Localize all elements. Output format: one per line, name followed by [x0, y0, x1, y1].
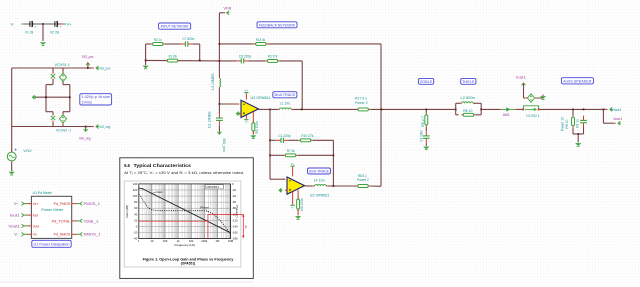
svg-text:V2 28: V2 28: [50, 31, 59, 35]
pin: [87, 63, 89, 65]
wire: [332, 140, 334, 186]
wire: [328, 185, 358, 187]
pin V+: [61, 23, 64, 25]
pin: [223, 12, 225, 14]
label pin: [22, 213, 24, 217]
wire to inverting input: [219, 103, 238, 105]
label pin: [80, 219, 82, 223]
wire VG2 feed: [35, 96, 70, 98]
svg-text:76°: 76°: [244, 225, 248, 229]
pin Pd_NMOS: [72, 233, 77, 235]
svg-text:VCVS1 1: VCVS1 1: [55, 63, 70, 67]
wire: [52, 112, 54, 116]
svg-text:SIG_pos: SIG_pos: [222, 138, 226, 152]
annotation 5mA TRACE 2: [308, 168, 331, 174]
ground: [9, 172, 15, 175]
svg-text:R5 2.7: R5 2.7: [421, 116, 425, 127]
resistor R6: [461, 113, 475, 116]
V+ jumper U3: [244, 88, 248, 99]
source VG2: [7, 149, 16, 163]
svg-text:1M: 1M: [215, 239, 220, 243]
pin: [283, 178, 285, 180]
resistor R18: [254, 42, 268, 45]
svg-text:Vs+: Vs+: [33, 202, 39, 206]
wire: [63, 84, 70, 86]
svg-text:L2 500n: L2 500n: [461, 96, 475, 100]
ammeter AM1: [500, 107, 517, 111]
svg-text:5mA TRACE: 5mA TRACE: [309, 169, 330, 173]
pin: [62, 123, 64, 125]
annotation THELE: [461, 78, 476, 84]
wire: [270, 139, 276, 141]
svg-text:V+: V+: [245, 88, 249, 92]
label pin: [96, 66, 99, 70]
junction SIG_neg: [85, 126, 87, 128]
resistor R8: [356, 185, 370, 188]
svg-text:VG2: VG2: [23, 149, 31, 153]
svg-text:Typical Characteristics: Typical Characteristics: [134, 163, 192, 168]
pin: [240, 113, 242, 115]
svg-text:NMOS_1: NMOS_1: [84, 233, 101, 237]
CCVS2 sense: [522, 106, 540, 111]
wire: [476, 114, 482, 116]
svg-text:SIG_pos: SIG_pos: [99, 67, 110, 71]
wire to ground: [42, 24, 44, 41]
V- jumper U2: [291, 192, 295, 210]
junction supply mid: [42, 23, 44, 25]
svg-text:-160: -160: [232, 231, 238, 235]
pin: [85, 129, 87, 131]
red marker vertical: [207, 214, 209, 238]
svg-text:SIG_neg: SIG_neg: [99, 125, 110, 129]
svg-text:Phase (°): Phase (°): [235, 205, 239, 218]
svg-text:Vout1: Vout1: [613, 117, 622, 121]
wire: [480, 103, 482, 115]
svg-text:OPA551: OPA551: [206, 185, 219, 189]
svg-text:R10 27k: R10 27k: [301, 134, 313, 138]
junction: [333, 185, 335, 187]
junction: [572, 109, 574, 111]
pin V-: [22, 23, 25, 25]
svg-text:U3 OPA551: U3 OPA551: [251, 96, 271, 100]
wire: [297, 209, 299, 215]
wire: [313, 139, 334, 141]
wire: [62, 125, 64, 127]
annotation FEEDBACK NETWORK: [257, 22, 297, 28]
gain label: [151, 190, 164, 194]
svg-text:SIG_neg: SIG_neg: [79, 137, 91, 141]
pin Iout: [27, 214, 32, 216]
svg-text:L4 10n: L4 10n: [314, 179, 325, 183]
annotation U1: [32, 240, 71, 247]
label pin: [84, 128, 88, 131]
wire: [26, 23, 44, 25]
wire: [199, 44, 201, 60]
battery V1: [28, 21, 37, 29]
label pin: [227, 11, 230, 15]
wire: [219, 12, 223, 14]
pin Vs+: [27, 203, 32, 205]
wire: [193, 43, 200, 45]
svg-text:V+: V+: [67, 23, 73, 27]
svg-text:ZOBLE: ZOBLE: [420, 80, 433, 84]
power meter U1 body: [31, 196, 71, 238]
label pin: [22, 202, 24, 206]
wire to U2 inverting input: [270, 178, 285, 180]
phase label: [200, 205, 209, 212]
svg-text:U1 Pd Meter: U1 Pd Meter: [33, 191, 53, 195]
inductor L1: [278, 108, 294, 109]
pin: [523, 83, 525, 85]
svg-text:100: 100: [133, 194, 138, 198]
svg-text:Power Meter: Power Meter: [41, 208, 64, 212]
junction: [145, 60, 147, 62]
VCVS2 input port: [51, 116, 55, 120]
resistor R10: [298, 139, 312, 142]
svg-text:-140: -140: [232, 224, 238, 228]
wire: [298, 154, 334, 156]
capacitor C6: [580, 116, 587, 128]
label pin: [96, 125, 99, 129]
resistor R2: [252, 121, 255, 133]
wire: [252, 131, 254, 135]
wire: [86, 126, 92, 128]
wire: [288, 139, 298, 141]
junction SIG_pos: [87, 67, 89, 69]
svg-text:C6 1n: C6 1n: [575, 119, 579, 128]
wire: [456, 102, 461, 104]
wire U3 output: [259, 108, 271, 110]
V+ jumper U2: [291, 162, 295, 176]
resistor R1: [165, 59, 179, 62]
pin: [52, 72, 54, 74]
wire: [88, 67, 92, 69]
pin Pd_PMOS: [72, 203, 77, 205]
svg-text:Frequency (Hz): Frequency (Hz): [174, 243, 195, 247]
pin: [218, 132, 220, 134]
ground: [142, 66, 148, 69]
svg-text:20: 20: [134, 218, 138, 222]
wire: [62, 82, 64, 85]
junction Thiele left: [455, 109, 457, 111]
capacitor C4: [423, 131, 430, 143]
svg-text:At Tⱼ = 25°C, Vₛ = ±30 V and R: At Tⱼ = 25°C, Vₛ = ±30 V and Rₗ = 3 kΩ, …: [124, 171, 244, 175]
svg-text:V-: V-: [291, 206, 294, 210]
wire main row: [573, 108, 603, 110]
junction U3 out: [269, 109, 271, 111]
wire: [540, 108, 573, 110]
svg-text:R18 4k: R18 4k: [256, 38, 265, 42]
capacitor C8: [237, 58, 249, 63]
label pin: [22, 233, 24, 237]
page margin: [0, 282, 253, 287]
wire: [572, 109, 574, 115]
wire main row: [370, 108, 426, 110]
svg-text:R3 27k: R3 27k: [268, 54, 278, 58]
wire: [481, 108, 500, 110]
svg-text:VCVS2 -1: VCVS2 -1: [56, 129, 71, 133]
svg-text:1.42Vp-p 1k sine: 1.42Vp-p 1k sine: [82, 95, 111, 99]
red phase-margin arrow: [242, 214, 248, 238]
wire to output: [301, 61, 303, 110]
svg-text:Pd_NMOS: Pd_NMOS: [54, 233, 72, 237]
svg-text:6.6: 6.6: [124, 163, 130, 168]
svg-text:Phase: Phase: [200, 205, 209, 209]
svg-text:C8 220p: C8 220p: [239, 54, 252, 58]
wire: [218, 104, 220, 114]
resistor R17: [356, 108, 370, 111]
junction: [219, 60, 221, 62]
svg-text:R7 4k: R7 4k: [287, 149, 295, 153]
wire to U2 input: [269, 109, 271, 179]
wire: [43, 23, 61, 25]
svg-text:140: 140: [133, 182, 138, 186]
op-amp U3: [241, 100, 259, 117]
wire: [146, 43, 151, 45]
VCVS1 input port: [51, 74, 55, 78]
label pin: [522, 83, 526, 86]
junction: [583, 109, 585, 111]
capacitor C7: [181, 41, 193, 46]
svg-text:-120: -120: [232, 218, 238, 222]
wire: [425, 109, 427, 113]
op-amp U2: [287, 177, 305, 194]
ground: [250, 135, 256, 138]
svg-text:Power 2: Power 2: [357, 178, 369, 182]
wire: [85, 127, 87, 130]
junction: [269, 154, 271, 156]
junction: [219, 43, 221, 45]
red marker horizontal 2: [139, 220, 208, 222]
wire: [52, 68, 54, 74]
wire: [252, 112, 254, 123]
svg-text:Gain (dB): Gain (dB): [125, 205, 129, 218]
ground (+ input): [236, 111, 239, 116]
CCVS2 source leads: [524, 97, 541, 99]
resistor R5: [425, 113, 428, 127]
svg-text:40: 40: [134, 212, 138, 216]
svg-text:R6 10: R6 10: [463, 109, 472, 113]
ground: [40, 42, 46, 45]
junction: [577, 133, 579, 135]
svg-text:R2 100k: R2 100k: [255, 121, 259, 134]
svg-text:Iout: Iout: [33, 214, 39, 218]
wire: [46, 111, 53, 113]
svg-text:VFB: VFB: [223, 6, 231, 10]
svg-text:L3 10MEG: L3 10MEG: [211, 73, 215, 90]
junction: [269, 139, 271, 141]
wire: [270, 154, 284, 156]
graph grid: [139, 184, 231, 239]
pin: [62, 71, 64, 73]
inductor L4: [313, 185, 329, 186]
wire: [474, 102, 481, 104]
wire: [145, 44, 147, 60]
svg-text:10: 10: [150, 239, 154, 243]
wire: [52, 79, 54, 85]
wire: [280, 60, 303, 62]
svg-text:C2 10MEG: C2 10MEG: [207, 111, 211, 128]
wire: [270, 108, 278, 110]
wire VCVS bottom: [12, 126, 86, 128]
svg-text:Gain: Gain: [156, 190, 163, 194]
wire main row: [293, 108, 358, 110]
wire: [219, 43, 253, 45]
resistor R3: [265, 59, 279, 62]
svg-text:L1 10n: L1 10n: [280, 102, 290, 106]
wire: [218, 88, 220, 104]
wire: [62, 112, 64, 115]
svg-text:4ohm SPEAKER: 4ohm SPEAKER: [563, 79, 591, 83]
svg-text:PMOS_1: PMOS_1: [84, 202, 101, 206]
svg-text:Pd_PMOS: Pd_PMOS: [54, 202, 72, 206]
junction Zobel: [425, 109, 427, 111]
wire main row: [426, 108, 455, 110]
wire: [602, 109, 604, 123]
annotation ZOBLE: [419, 78, 434, 84]
wire: [165, 43, 181, 45]
svg-text:U1 Power Dissipation: U1 Power Dissipation: [34, 242, 70, 246]
wire feedback top: [268, 43, 381, 45]
svg-text:Pd_TOTAL: Pd_TOTAL: [52, 219, 71, 223]
junction outputs join: [381, 109, 383, 111]
graph axis labels: [125, 182, 239, 247]
capacitor C2: [216, 113, 223, 125]
wire: [603, 108, 605, 110]
wire: [425, 127, 427, 131]
svg-text:V+: V+: [14, 202, 18, 206]
label pin: [618, 121, 621, 125]
wire VFB vertical: [218, 13, 220, 77]
ground (+ input U2): [278, 188, 281, 193]
wire: [63, 111, 70, 113]
wire: [517, 108, 524, 110]
VCVS2 source: [59, 115, 66, 123]
svg-text:AM1: AM1: [503, 113, 510, 117]
wire left vertical: [11, 68, 13, 152]
junction Thiele right: [480, 109, 482, 111]
resistor R4: [297, 197, 300, 211]
wire: [11, 163, 13, 172]
label pin: [22, 224, 24, 228]
wire: [249, 60, 266, 62]
label pin: [610, 107, 613, 111]
wire R1 row: [146, 59, 220, 62]
wire: [577, 134, 579, 143]
pin: [285, 189, 287, 191]
svg-text:R9 10: R9 10: [565, 120, 569, 129]
capacitor C1: [276, 138, 288, 143]
wire: [52, 122, 54, 127]
wire: [572, 128, 574, 134]
resistor R21: [151, 43, 165, 46]
svg-text:60: 60: [134, 206, 138, 210]
pin Pd_TOTAL: [72, 220, 77, 222]
wire: [370, 185, 381, 187]
VCVS1 source: [59, 73, 66, 81]
svg-text:-40: -40: [232, 194, 236, 198]
svg-text:U2 OPA551: U2 OPA551: [310, 194, 330, 198]
page boundary: [0, 281, 253, 283]
junction: [45, 96, 47, 98]
svg-text:C1 220p: C1 220p: [278, 134, 290, 138]
svg-text:100: 100: [163, 239, 168, 243]
svg-text:(OPA551): (OPA551): [181, 262, 196, 266]
CCVS2 source: [527, 94, 534, 102]
svg-text:VIout1: VIout1: [611, 108, 621, 112]
ground: [295, 216, 301, 219]
ground (left arrow): [32, 95, 35, 100]
wire: [62, 68, 64, 73]
battery V2: [53, 21, 62, 29]
wire U2 output: [305, 185, 313, 187]
svg-text:80: 80: [134, 200, 138, 204]
graph legend OPA551: [205, 185, 223, 189]
wire: [218, 125, 220, 132]
inductor L2: [460, 102, 476, 103]
svg-text:V1 28: V1 28: [25, 31, 33, 35]
svg-text:Iout1: Iout1: [10, 214, 20, 218]
wire: [456, 114, 459, 116]
inductor L3: [219, 76, 220, 89]
resistor R7: [283, 154, 297, 157]
pin Vs-: [27, 233, 32, 235]
ground: [575, 143, 581, 146]
pin: [52, 121, 54, 123]
svg-text:R1 10k: R1 10k: [169, 55, 178, 59]
figure frame: [124, 181, 241, 267]
wire: [145, 60, 147, 65]
svg-text:R21 1k: R21 1k: [154, 38, 162, 42]
label pin: [86, 63, 90, 66]
wire: [583, 128, 585, 134]
wire: [87, 65, 89, 69]
svg-text:5mA TRACE: 5mA TRACE: [274, 93, 296, 97]
svg-text:INPUT NETWORK: INPUT NETWORK: [161, 25, 190, 29]
pin Vout: [27, 225, 32, 227]
junction: [333, 154, 335, 156]
junction: [69, 96, 71, 98]
wire: [573, 133, 584, 135]
svg-text:THELE: THELE: [462, 80, 475, 84]
wire: [219, 60, 236, 62]
svg-text:Vout1: Vout1: [8, 224, 20, 228]
pin: [92, 67, 94, 69]
junction inverting node: [219, 103, 221, 105]
wire: [541, 97, 544, 99]
ground: [540, 96, 546, 99]
svg-text:Power 2: Power 2: [355, 101, 368, 105]
annotation INPUT NETWORK: [159, 23, 191, 29]
svg-text:V+: V+: [291, 162, 295, 166]
ground: [423, 147, 429, 150]
pin: [92, 126, 94, 128]
red marker horizontal 1: [208, 213, 243, 215]
svg-text:CCVS2 1: CCVS2 1: [526, 114, 539, 118]
svg-text:C7 820n: C7 820n: [183, 37, 195, 41]
V- jumper U3: [244, 115, 248, 124]
svg-text:SIG_pos: SIG_pos: [82, 55, 94, 59]
annotation 4ohm SPEAKER: [561, 78, 593, 84]
svg-text:-60: -60: [232, 200, 236, 204]
junction: [199, 60, 201, 62]
svg-text:Vs-: Vs-: [33, 233, 38, 237]
svg-text:-20: -20: [232, 188, 236, 192]
annotation 5mA TRACE: [273, 92, 297, 98]
label pin: [80, 233, 82, 237]
svg-text:10M: 10M: [228, 239, 234, 243]
pin: [606, 108, 608, 110]
